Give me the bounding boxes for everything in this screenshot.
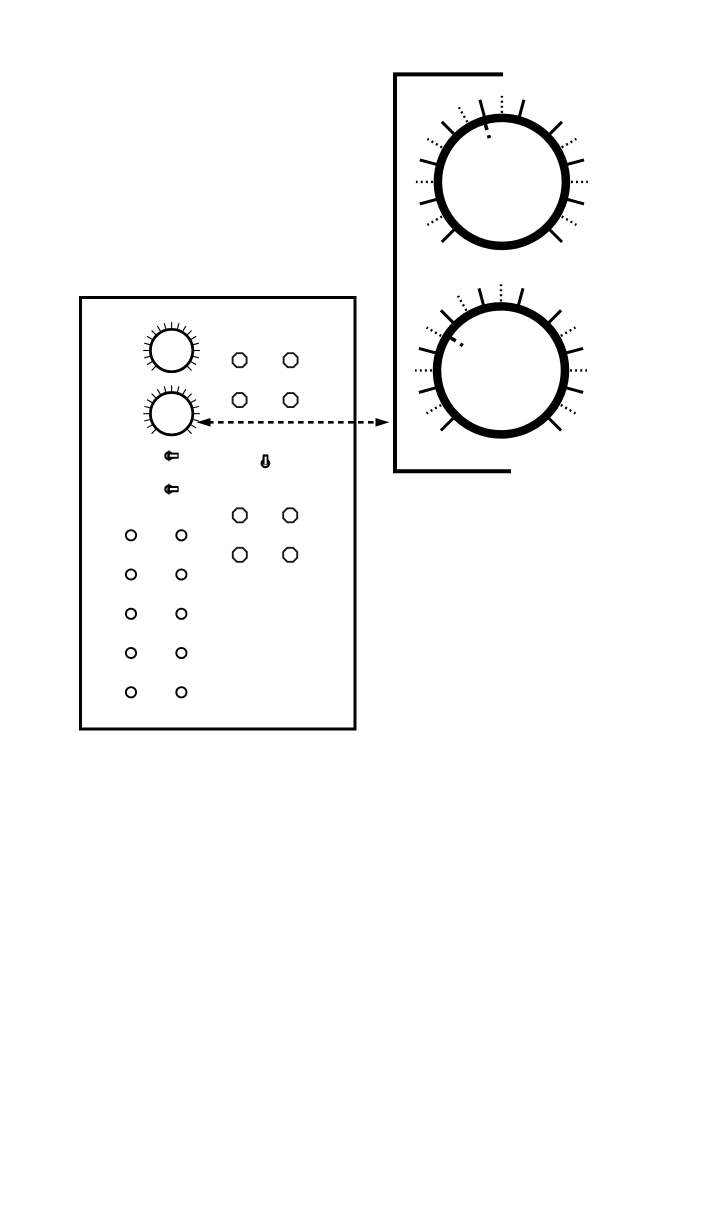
enlarged knob detail 2 [415, 284, 587, 434]
small knob K2 (panel) [143, 385, 200, 435]
thermostat knob icon (handle up) [262, 454, 270, 467]
small knob K1 (panel) [143, 322, 200, 371]
enlarged knob detail 1 [416, 96, 588, 246]
dashed double-headed arrow [197, 418, 390, 427]
control panel outline [81, 298, 356, 730]
magnifier bracket [395, 74, 511, 471]
key/valve icon 1 [165, 450, 178, 461]
round button grid (5 rows x 2 cols) [126, 530, 187, 697]
octagon button group 2 (2x2) [233, 508, 297, 562]
key/valve icon 2 [165, 484, 178, 495]
octagon button group 1 (2x2) [233, 353, 298, 407]
